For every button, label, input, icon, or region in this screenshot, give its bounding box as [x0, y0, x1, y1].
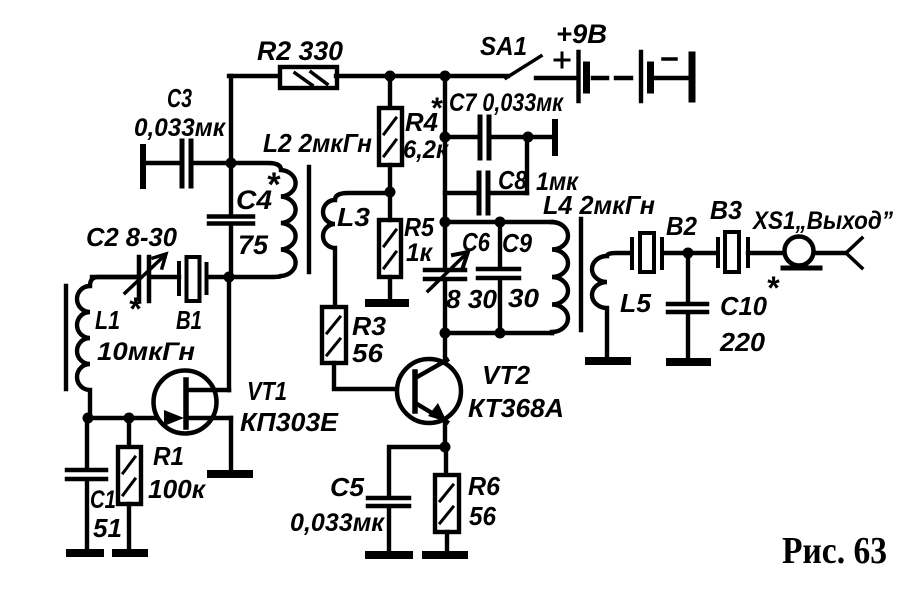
ground: under R6 [426, 551, 464, 559]
resistor R5 1k [379, 193, 401, 301]
resistor R6 56 [435, 447, 459, 551]
svg-text:+9В: +9В [556, 19, 607, 49]
node: C7/C8 right junction [523, 132, 534, 143]
svg-text:R6: R6 [468, 471, 501, 501]
crystal B1 [179, 257, 229, 301]
capacitor C5 0,033mk [368, 498, 409, 551]
wire: B2 to node C [663, 251, 688, 255]
wire: riser top rail to R4 [388, 76, 392, 108]
transistor VT1 KP303E [154, 371, 232, 434]
wire: switch to battery [536, 76, 577, 80]
svg-text:8 30: 8 30 [446, 284, 498, 314]
svg-text:C9: C9 [502, 228, 532, 258]
svg-text:0,033мк: 0,033мк [134, 114, 226, 142]
svg-text:B3: B3 [710, 195, 743, 225]
terminal: C7 end bar [552, 122, 558, 153]
core: L1 core bar [64, 286, 68, 389]
capacitor C1 51 [67, 418, 106, 549]
wire: VT2 collector riser [443, 333, 447, 361]
resistor R3 56 [322, 307, 346, 363]
node: tank top left [440, 217, 451, 228]
node: tank bottom C9 [495, 328, 506, 339]
node: R4/R5/L3 junction [385, 187, 396, 198]
svg-text:1к: 1к [406, 239, 433, 267]
battery GB cell 2 [641, 52, 651, 101]
svg-text:L3: L3 [337, 202, 371, 232]
svg-text:L2 2мкГн: L2 2мкГн [263, 128, 372, 158]
svg-text:C2 8-30: C2 8-30 [86, 222, 178, 252]
svg-text:C1: C1 [90, 486, 116, 514]
svg-text:220: 220 [719, 327, 766, 357]
svg-text:*: * [430, 92, 443, 125]
svg-text:Рис. 63: Рис. 63 [782, 530, 887, 572]
svg-text:R2 330: R2 330 [257, 36, 343, 66]
switch SA1 blade [506, 56, 541, 78]
svg-text:R5: R5 [404, 212, 434, 242]
svg-text:B2: B2 [666, 211, 697, 241]
wire: supply column x445 [443, 76, 447, 222]
svg-text:B1: B1 [176, 305, 202, 335]
wire: battery to end terminal [653, 76, 689, 80]
svg-text:КТ368А: КТ368А [468, 393, 564, 423]
coil L5 [592, 253, 630, 357]
svg-text:*: * [128, 291, 142, 327]
battery plus mark [555, 53, 569, 67]
wire: XS1 to plug fork [814, 251, 846, 255]
svg-text:C8: C8 [498, 165, 527, 195]
plug fork symbol [846, 238, 862, 268]
capacitor C3 0,033mk [182, 141, 191, 186]
wire: input bar to C3 left plate [145, 161, 180, 165]
capacitor C9 30 [478, 222, 519, 333]
wire: top rail left segment [229, 74, 281, 78]
node: L1/gate junction [83, 413, 94, 424]
battery minus mark [663, 57, 676, 61]
svg-text:L1: L1 [95, 305, 120, 335]
svg-text:75: 75 [238, 230, 269, 260]
coil L4 2mkGn [552, 222, 568, 333]
capacitor C4 75 [209, 163, 253, 277]
wire: C3 right plate to node A [193, 161, 231, 165]
svg-text:56: 56 [352, 338, 384, 368]
wire: emitter node to C5 [389, 447, 445, 496]
resistor R1 100k [118, 418, 141, 549]
svg-text:*: * [766, 270, 780, 306]
node: C3/L2/C4 junction [226, 158, 237, 169]
wire: VT1 drain riser [227, 277, 231, 390]
svg-text:VT1: VT1 [247, 376, 287, 406]
svg-text:L4 2мкГн: L4 2мкГн [543, 190, 655, 220]
svg-text:30: 30 [508, 283, 540, 313]
coil L3 [323, 193, 390, 307]
node: B2/B3/C10 junction [683, 248, 694, 259]
node: C7 left tap [440, 132, 451, 143]
svg-text:*: * [266, 166, 281, 204]
svg-text:56: 56 [469, 501, 497, 531]
terminal: battery end bar [689, 55, 696, 99]
node: emitter junction [440, 442, 451, 453]
capacitor C7 0,033mk [445, 117, 552, 158]
ground: under R1 [112, 549, 148, 557]
wire: VT1 source to ground [229, 418, 233, 470]
svg-text:100к: 100к [148, 474, 207, 504]
svg-text:0,033мк: 0,033мк [290, 509, 385, 537]
wire: R3 to VT2 base [334, 363, 412, 389]
svg-text:C7 0,033мк: C7 0,033мк [449, 89, 564, 117]
wire: node C to B3 [688, 251, 717, 255]
resistor R4 6,2k [379, 108, 402, 165]
capacitor C8 1mk [445, 139, 527, 213]
ground: under C10 [670, 358, 707, 366]
variable capacitor C2 8-30 [92, 254, 179, 301]
ground: under R5 [369, 299, 405, 307]
svg-text:VT2: VT2 [482, 360, 531, 390]
svg-text:10мкГн: 10мкГн [97, 338, 195, 366]
wire: B3 to XS1 [748, 251, 784, 255]
node: B1/L2/C4/VT1-drain junction [224, 272, 235, 283]
coil L1 10mkGn [77, 277, 137, 418]
wire: gate lead with arrow [88, 410, 184, 426]
svg-text:6,2к: 6,2к [403, 136, 449, 164]
ground: under L5 [589, 357, 627, 365]
svg-text:51: 51 [93, 513, 122, 543]
node: R1 top junction [124, 413, 135, 424]
ground: VT1 source [211, 470, 249, 478]
svg-text:R3: R3 [352, 311, 387, 341]
wire: VT2 emitter drop [443, 421, 447, 447]
svg-text:R1: R1 [153, 441, 184, 471]
node: tank bottom left [440, 328, 451, 339]
coil L2 2mkGn [231, 163, 296, 277]
ground: under C1 [66, 549, 104, 557]
node: top rail / R4 [385, 71, 396, 82]
node: tank top C9 [495, 217, 506, 228]
wire: riser node A to top rail [229, 76, 233, 163]
svg-text:SA1: SA1 [480, 31, 527, 61]
wire: tank top rail [445, 220, 552, 224]
connector XS1 Vyhod [783, 237, 820, 269]
svg-text:L5: L5 [620, 288, 652, 318]
battery GB cell 1 [579, 52, 587, 101]
core: L2/L3 transformer core [307, 167, 311, 272]
wire: tank bottom rail [445, 331, 552, 335]
core: L4/L5 transformer core [579, 219, 583, 330]
transistor VT2 KT368A [397, 359, 461, 423]
svg-text:C5: C5 [330, 472, 365, 502]
crystal B2 [632, 233, 662, 272]
svg-text:C6: C6 [462, 227, 490, 257]
wire: R4 bottom to node B [388, 165, 392, 193]
battery dashed link [593, 76, 631, 81]
svg-text:C10: C10 [720, 291, 768, 321]
wire: top rail right segment to switch [336, 74, 508, 78]
svg-text:C3: C3 [167, 83, 192, 113]
ground: under C5 [369, 551, 409, 559]
crystal B3 [718, 232, 748, 272]
capacitor C10 220 [668, 253, 707, 358]
svg-text:КП303Е: КП303Е [240, 407, 339, 437]
terminal: antenna input bar [140, 147, 146, 186]
resistor R2 330 [280, 67, 337, 88]
variable capacitor C6 8-30 [425, 222, 468, 333]
svg-text:XS1„Выход”: XS1„Выход” [751, 207, 893, 235]
node: top rail / supply column [440, 71, 451, 82]
